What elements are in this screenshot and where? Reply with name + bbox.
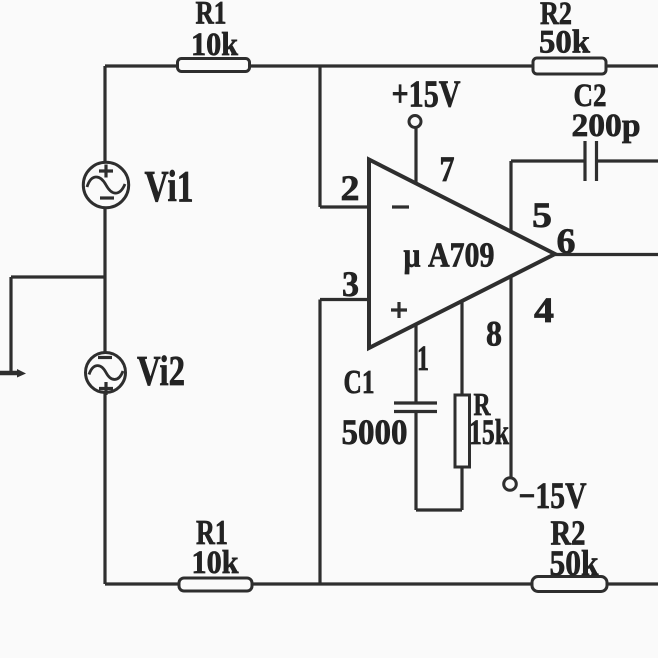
- wire pin 5 to C2: [511, 159, 585, 162]
- svg-text:10k: 10k: [192, 545, 240, 581]
- svg-text:2: 2: [341, 168, 360, 208]
- resistor R: [455, 395, 470, 467]
- svg-text:5: 5: [532, 195, 552, 235]
- svg-text:200p: 200p: [572, 108, 641, 144]
- svg-text:50k: 50k: [539, 25, 591, 61]
- svg-text:−15V: −15V: [519, 476, 587, 517]
- svg-text:C1: C1: [344, 364, 375, 401]
- svg-text:5000: 5000: [342, 412, 408, 452]
- wire below Vi2 to bottom bus: [103, 392, 106, 584]
- svg-text:μ A709: μ A709: [404, 236, 495, 275]
- wire non-inverting branch vertical to bottom bus: [318, 300, 321, 585]
- resistor R1 (top): [178, 59, 250, 72]
- svg-text:1: 1: [417, 338, 429, 378]
- wire C2 to right edge: [597, 159, 658, 162]
- svg-text:4: 4: [534, 290, 554, 330]
- op-amp U1 triangle: [369, 160, 555, 349]
- svg-text:8: 8: [486, 314, 502, 354]
- wire output pin 6: [555, 253, 658, 256]
- op-amp plus sign: [391, 302, 407, 318]
- svg-text:10k: 10k: [191, 27, 239, 63]
- svg-text:+15V: +15V: [392, 74, 461, 116]
- svg-text:3: 3: [342, 264, 359, 304]
- resistor R2 (top): [533, 58, 606, 74]
- wire inverting branch vertical: [318, 66, 321, 207]
- terminal -15V: [504, 478, 517, 491]
- svg-text:Vi1: Vi1: [145, 162, 194, 211]
- resistor R2 (bottom): [532, 577, 607, 592]
- source Vi2: [86, 353, 126, 393]
- ground: [0, 371, 19, 376]
- wire pin 4 vertical: [509, 277, 512, 478]
- wire pin 3 horizontal: [320, 298, 369, 301]
- wire between Vi1 and Vi2: [103, 207, 106, 353]
- wire R to bottom junction: [460, 467, 463, 510]
- wire ground vertical: [9, 277, 12, 373]
- wire pin 8 to R: [460, 301, 463, 395]
- wire pin 1 to C1: [414, 325, 417, 403]
- terminal +15V: [409, 116, 421, 128]
- source Vi1: [83, 162, 128, 207]
- svg-text:Vi2: Vi2: [137, 349, 185, 395]
- capacitor C2: [585, 141, 597, 181]
- wire pin 7 (V+): [414, 127, 417, 184]
- capacitor C1: [394, 403, 437, 412]
- svg-text:15k: 15k: [469, 412, 509, 452]
- wire C1 to bottom junction: [414, 412, 417, 511]
- svg-text:50k: 50k: [550, 543, 599, 583]
- svg-text:7: 7: [440, 149, 455, 189]
- wire left vertical to Vi1: [103, 66, 106, 163]
- op-amp minus sign: [392, 205, 409, 208]
- wire top bus: [105, 64, 658, 67]
- resistor R1 (bottom): [179, 578, 252, 591]
- wire ground branch horizontal: [11, 275, 105, 278]
- wire pin 5 vertical: [509, 161, 512, 232]
- wire bottom bus: [105, 582, 658, 585]
- wire C1-R bottom junction: [416, 508, 462, 511]
- wire pin 2 horizontal: [320, 205, 369, 208]
